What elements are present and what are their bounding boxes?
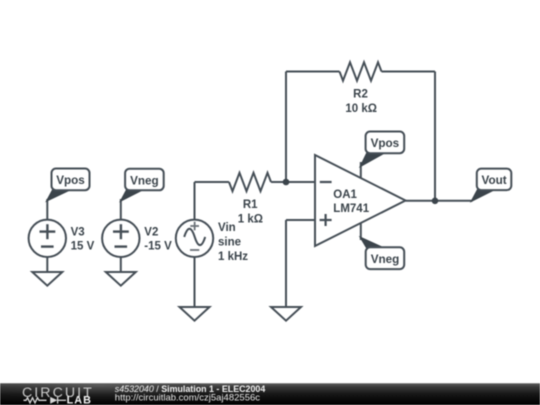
svg-text:sine: sine bbox=[218, 237, 241, 249]
svg-text:10 kΩ: 10 kΩ bbox=[345, 103, 377, 115]
svg-text:Vpos: Vpos bbox=[371, 137, 400, 150]
svg-text:1 kHz: 1 kHz bbox=[218, 251, 248, 263]
svg-text:LAB: LAB bbox=[67, 395, 93, 405]
svg-text:1 kΩ: 1 kΩ bbox=[238, 213, 263, 225]
svg-text:Vout: Vout bbox=[482, 174, 507, 187]
svg-text:Vneg: Vneg bbox=[130, 174, 159, 187]
svg-text:V3: V3 bbox=[71, 227, 85, 239]
svg-text:http://circuitlab.com/czj5aj48: http://circuitlab.com/czj5aj482556c bbox=[115, 393, 260, 404]
svg-text:LM741: LM741 bbox=[333, 203, 369, 215]
svg-text:R2: R2 bbox=[353, 88, 368, 100]
svg-text:OA1: OA1 bbox=[333, 189, 357, 201]
svg-text:Vneg: Vneg bbox=[371, 253, 400, 266]
svg-text:V2: V2 bbox=[144, 227, 158, 239]
svg-text:15 V: 15 V bbox=[71, 240, 95, 252]
svg-text:-15 V: -15 V bbox=[144, 240, 172, 252]
svg-text:Vin: Vin bbox=[218, 222, 236, 234]
svg-text:Vpos: Vpos bbox=[56, 174, 85, 187]
svg-text:R1: R1 bbox=[243, 199, 258, 211]
